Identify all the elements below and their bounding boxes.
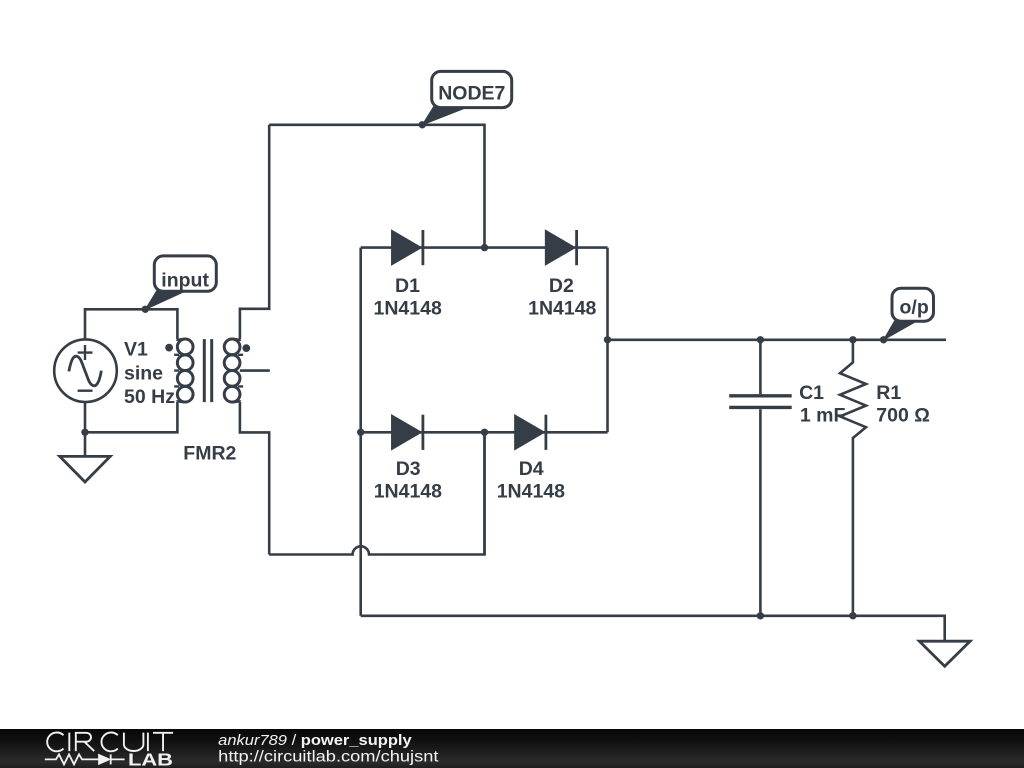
value label V1 sine 50 Hz (124, 339, 175, 408)
footer logo CIRCUIT (47, 733, 173, 752)
ground (left) (60, 432, 110, 482)
junction R1 bottom (849, 612, 856, 619)
svg-text:D4: D4 (519, 458, 544, 480)
svg-text:D2: D2 (549, 275, 574, 297)
resistor R1 (840, 340, 866, 616)
svg-text:http://circuitlab.com/chujsnt: http://circuitlab.com/chujsnt (218, 748, 439, 765)
diode D3 (392, 415, 423, 450)
label D2 / 1N4148 (528, 275, 596, 320)
svg-text:R1: R1 (876, 382, 901, 404)
wire: output row (o/p net) (608, 338, 947, 341)
svg-text:1N4148: 1N4148 (374, 480, 442, 502)
wire: secondary bottom jog down (240, 402, 269, 555)
node o/p anchor dot (880, 336, 887, 343)
secondary center tap stub (240, 369, 270, 372)
svg-text:50 Hz: 50 Hz (124, 386, 175, 408)
node flag: o/p (884, 288, 934, 340)
junction bridge left / D3 row (357, 429, 364, 436)
svg-text:o/p: o/p (900, 297, 929, 319)
svg-text:C1: C1 (799, 382, 824, 404)
wire: bottom rail to right ground (361, 616, 945, 641)
node NODE7 junction dot (419, 121, 426, 128)
label D4 / 1N4148 (497, 458, 565, 503)
label D3 / 1N4148 (374, 458, 442, 503)
svg-text:D3: D3 (396, 458, 421, 480)
svg-text:LAB: LAB (128, 750, 173, 768)
wire: bridge top row (361, 246, 608, 249)
diode D4 (515, 415, 546, 450)
wire: mid column down from D3/D4 junction (483, 432, 486, 554)
svg-text:700 Ω: 700 Ω (876, 405, 930, 427)
footer bar (0, 729, 1024, 768)
svg-text:ankur789 / power_supply: ankur789 / power_supply (218, 732, 412, 749)
wire: NODE7 horizontal and down to bridge (269, 125, 484, 248)
ground (right) (919, 641, 970, 666)
capacitor C1 (729, 340, 792, 616)
diode D2 (546, 230, 577, 265)
node input junction dot (142, 306, 149, 313)
svg-text:D1: D1 (395, 275, 420, 297)
wire: bridge bottom row (361, 431, 608, 434)
svg-text:sine: sine (124, 362, 163, 384)
primary winding (177, 339, 193, 355)
node flag: input (145, 256, 216, 310)
wire: bridge right column (606, 248, 609, 433)
wire: bridge left column (359, 248, 362, 616)
transformer FMR2 (174, 339, 243, 402)
svg-text:input: input (161, 270, 209, 292)
svg-text:NODE7: NODE7 (438, 82, 505, 104)
label C1 / 1 mF (799, 382, 845, 427)
phase dot secondary (242, 344, 250, 352)
wire: secondary top up to NODE7 row (240, 125, 269, 339)
svg-text:1N4148: 1N4148 (374, 298, 442, 320)
svg-text:1N4148: 1N4148 (497, 480, 565, 502)
diode D1 (392, 230, 423, 265)
wire: V1 bottom to primary bottom (85, 402, 177, 432)
junction at V1 bottom / ground (81, 429, 88, 436)
junction bridge right / output (604, 336, 611, 343)
label R1 / 700 Ohm (876, 382, 930, 427)
svg-text:V1: V1 (124, 339, 148, 361)
label D1 / 1N4148 (374, 275, 442, 320)
junction D3 cathode / D4 anode (481, 429, 488, 436)
svg-text:1N4148: 1N4148 (528, 298, 596, 320)
phase dot primary (165, 344, 173, 352)
wire: low horizontal with hop over left column (269, 433, 484, 555)
core (204, 339, 211, 402)
wire: V1 top to primary top (input net) (85, 309, 177, 339)
junction R1 top (849, 336, 856, 343)
svg-text:FMR2: FMR2 (183, 443, 236, 465)
node flag: NODE7 (422, 71, 511, 124)
junction D1 cathode / D2 anode (481, 244, 488, 251)
voltage source V1 (54, 339, 117, 402)
footer logo resistor-diode glyph (45, 754, 125, 764)
junction C1 top (757, 336, 764, 343)
junction C1 bottom (757, 612, 764, 619)
secondary winding (224, 339, 240, 355)
